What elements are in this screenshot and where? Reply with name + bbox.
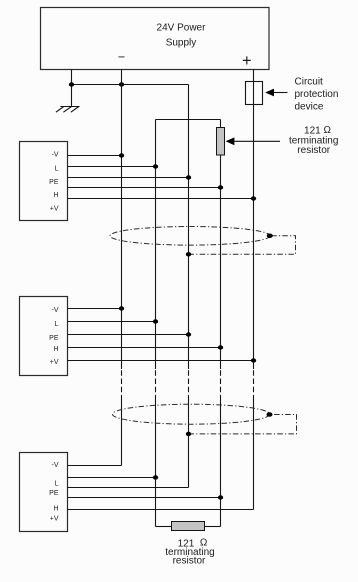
device 1 junction dots — [119, 153, 124, 157]
cable break H bus (dashed) — [220, 370, 222, 392]
cable shield ellipse 1 — [110, 227, 270, 246]
junction dot minus bus — [119, 82, 124, 86]
device 2 junction dots — [119, 306, 124, 310]
svg-text:L: L — [55, 481, 59, 488]
svg-text:−: − — [118, 50, 125, 64]
wire H bus (top stub above resistor) — [220, 120, 222, 128]
svg-text:Supply: Supply — [166, 38, 197, 49]
ground symbol — [56, 107, 80, 113]
shield dot on PE bus 2 — [186, 432, 191, 436]
device 1 wire +V — [68, 198, 254, 200]
device node 3 box — [20, 453, 68, 532]
device 2 wire -V — [68, 308, 122, 310]
svg-text:L: L — [55, 321, 59, 328]
wire H bus (lower) — [220, 395, 222, 527]
wire H bus (upper) — [220, 155, 222, 369]
svg-text:-V: -V — [52, 152, 59, 159]
svg-text:+V: +V — [50, 206, 59, 213]
svg-text:+V: +V — [50, 515, 59, 522]
svg-text:protection: protection — [295, 89, 339, 100]
device 1 wire -V — [68, 155, 122, 157]
device 3 wire L — [68, 477, 156, 479]
wire PE bus (lower) — [188, 395, 190, 488]
wire PE bus (upper) — [188, 85, 190, 370]
svg-text:H: H — [53, 505, 58, 512]
svg-text:L: L — [55, 166, 59, 173]
device 3 wire -V — [68, 465, 122, 467]
svg-text:device: device — [295, 101, 324, 112]
wire +V bus (upper) — [253, 70, 255, 370]
device node 1 box — [20, 142, 68, 221]
wire H bus to bottom resistor — [205, 526, 221, 528]
arrow to circuit protection device — [265, 89, 274, 97]
wire ground stub — [71, 70, 73, 107]
power supply PS1 box — [41, 8, 270, 70]
device 3 junction dots — [153, 475, 158, 479]
device 2 wire PE — [68, 334, 189, 336]
shield drain link 1 (dash-dot) — [189, 236, 296, 255]
cable shield ellipse 2 — [113, 404, 270, 424]
resistor R1 121 ohm terminating (top) — [217, 128, 225, 156]
wire L bus (upper) — [155, 120, 157, 370]
svg-text:resistor: resistor — [297, 145, 330, 156]
resistor R2 121 ohm terminating (bottom) — [172, 522, 205, 531]
svg-text:24V Power: 24V Power — [157, 23, 207, 34]
shield dot on PE bus 1 — [186, 252, 191, 256]
shield dot at ellipse tip 2 — [267, 412, 273, 417]
svg-text:H: H — [53, 192, 58, 199]
svg-text:-V: -V — [52, 462, 59, 469]
svg-text:Circuit: Circuit — [295, 76, 324, 87]
svg-text:H: H — [53, 346, 58, 353]
wire L bus (lower) — [155, 395, 157, 527]
device 2 wire +V — [68, 360, 254, 362]
circuit protection device F1 — [246, 82, 263, 105]
device 1 wire H — [68, 187, 221, 189]
svg-text:+: + — [242, 52, 252, 70]
wire top link L to terminating resistor — [156, 119, 221, 121]
wire +V bus (lower) — [253, 395, 255, 510]
svg-text:PE: PE — [49, 335, 59, 342]
cable break L bus (dashed) — [155, 370, 157, 392]
wire -V bus (lower) — [121, 395, 123, 466]
device 1 wire PE — [68, 177, 189, 179]
cable break PE bus (dashed) — [188, 370, 190, 392]
device 3 wire PE — [68, 487, 189, 489]
device node 2 box — [20, 297, 68, 376]
shield dot at ellipse tip 1 — [267, 234, 273, 239]
svg-text:+V: +V — [50, 359, 59, 366]
device 3 wire +V — [68, 509, 254, 511]
wire: minus to ground and PE link — [72, 84, 189, 86]
svg-text:PE: PE — [49, 179, 59, 186]
arrow to top terminating resistor — [226, 137, 235, 145]
svg-text:-V: -V — [52, 307, 59, 314]
device 2 wire L — [68, 321, 156, 323]
cable break +V bus (dashed) — [253, 370, 255, 392]
svg-text:resistor: resistor — [173, 555, 206, 566]
device 1 wire L — [68, 166, 156, 168]
device 2 wire H — [68, 347, 221, 349]
wire -V bus (upper) — [121, 70, 123, 370]
cable break -V bus (dashed) — [121, 370, 123, 392]
wire L bus to bottom resistor — [156, 526, 172, 528]
junction dot ground/minus — [69, 82, 74, 86]
shield drain link 2 (dash-dot) — [189, 415, 297, 434]
device 3 wire H — [68, 497, 221, 499]
svg-text:PE: PE — [49, 490, 59, 497]
